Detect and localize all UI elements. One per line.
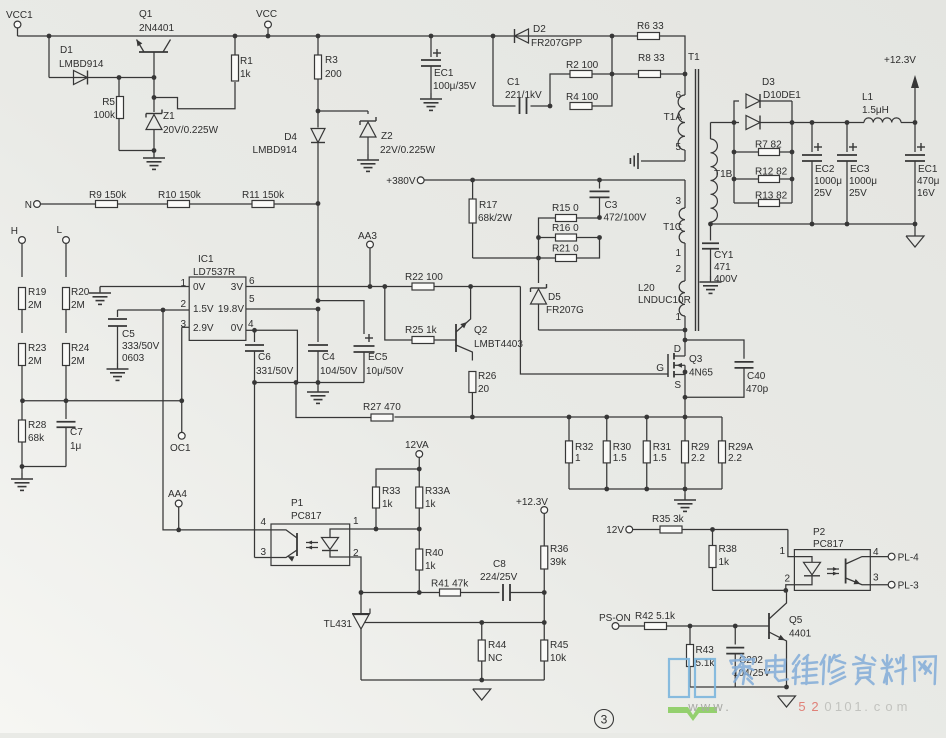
svg-text:Q1: Q1 (139, 9, 153, 20)
svg-text:R1: R1 (240, 56, 253, 67)
svg-text:100μ/35V: 100μ/35V (433, 81, 476, 92)
svg-text:1k: 1k (382, 499, 394, 510)
svg-text:AA3: AA3 (358, 231, 377, 242)
svg-text:5: 5 (798, 699, 805, 714)
svg-text:3: 3 (260, 547, 266, 558)
svg-text:104/50V: 104/50V (320, 366, 358, 377)
svg-text:EC2: EC2 (815, 164, 835, 175)
svg-text:1.5: 1.5 (653, 453, 667, 464)
svg-text:PC817: PC817 (813, 539, 844, 550)
svg-text:c: c (874, 699, 881, 714)
svg-text:R30: R30 (613, 442, 632, 453)
svg-text:R3: R3 (325, 55, 338, 66)
svg-text:2: 2 (784, 574, 790, 585)
svg-text:TL431: TL431 (324, 619, 353, 630)
svg-text:R26: R26 (478, 371, 497, 382)
svg-text:1: 1 (675, 312, 681, 323)
svg-text:D4: D4 (284, 132, 297, 143)
svg-text:4: 4 (248, 319, 254, 330)
svg-text:10k: 10k (550, 653, 567, 664)
svg-text:PL-3: PL-3 (898, 581, 920, 592)
svg-text:2.2: 2.2 (728, 453, 742, 464)
svg-text:EC5: EC5 (368, 352, 388, 363)
svg-text:R12 82: R12 82 (755, 167, 788, 178)
svg-text:+380V: +380V (386, 176, 416, 187)
svg-text:T1A: T1A (664, 112, 683, 123)
svg-text:R11 150k: R11 150k (242, 190, 285, 201)
svg-text:5: 5 (249, 294, 255, 305)
svg-text:.: . (864, 699, 868, 714)
svg-text:R5: R5 (102, 97, 115, 108)
svg-text:1: 1 (835, 699, 842, 714)
svg-text:R20: R20 (71, 287, 90, 298)
svg-text:1k: 1k (240, 69, 252, 80)
svg-text:0V: 0V (231, 323, 244, 334)
svg-text:Z1: Z1 (163, 111, 175, 122)
svg-text:w: w (687, 699, 698, 714)
svg-text:R43: R43 (696, 645, 715, 656)
svg-text:D: D (674, 344, 681, 355)
svg-text:o: o (885, 699, 892, 714)
svg-text:LMBT4403: LMBT4403 (474, 339, 523, 350)
svg-text:C40: C40 (747, 371, 766, 382)
svg-text:AA4: AA4 (168, 489, 187, 500)
svg-text:+12.3V: +12.3V (516, 497, 548, 508)
svg-text:68k/2W: 68k/2W (478, 213, 512, 224)
svg-text:6: 6 (249, 276, 255, 287)
svg-text:20: 20 (478, 384, 490, 395)
svg-text:2M: 2M (28, 356, 42, 367)
svg-text:0603: 0603 (122, 353, 145, 364)
svg-text:R38: R38 (719, 544, 738, 555)
svg-text:P1: P1 (291, 498, 304, 509)
svg-text:R17: R17 (479, 200, 498, 211)
svg-text:T1: T1 (688, 52, 700, 63)
svg-text:VCC1: VCC1 (6, 10, 33, 21)
svg-text:224/25V: 224/25V (480, 572, 518, 583)
svg-text:100k: 100k (93, 110, 116, 121)
svg-text:19.8V: 19.8V (218, 304, 244, 315)
svg-text:1000μ: 1000μ (814, 176, 842, 187)
svg-text:D10DE1: D10DE1 (763, 90, 801, 101)
svg-text:1.5μH: 1.5μH (862, 105, 889, 116)
svg-text:FR207GPP: FR207GPP (531, 38, 582, 49)
svg-text:Q3: Q3 (689, 354, 703, 365)
svg-text:H: H (11, 226, 18, 237)
svg-text:10μ/50V: 10μ/50V (366, 366, 404, 377)
svg-text:333/50V: 333/50V (122, 341, 160, 352)
svg-text:2M: 2M (71, 356, 85, 367)
svg-text:R21 0: R21 0 (552, 244, 579, 255)
svg-text:C6: C6 (258, 352, 271, 363)
svg-text:P2: P2 (813, 527, 826, 538)
svg-text:Q5: Q5 (789, 615, 803, 626)
svg-text:R22 100: R22 100 (405, 272, 443, 283)
svg-text:R40: R40 (425, 548, 444, 559)
svg-text:R33A: R33A (425, 486, 450, 497)
svg-text:T1C: T1C (663, 222, 682, 233)
svg-text:EC1: EC1 (434, 68, 454, 79)
svg-text:LD7537R: LD7537R (193, 267, 235, 278)
svg-text:CY1: CY1 (714, 250, 734, 261)
svg-text:4: 4 (260, 517, 266, 528)
svg-text:D1: D1 (60, 45, 73, 56)
svg-text:200: 200 (325, 69, 342, 80)
svg-text:2M: 2M (71, 300, 85, 311)
svg-text:0: 0 (844, 699, 851, 714)
svg-text:6: 6 (675, 90, 681, 101)
svg-text:Q2: Q2 (474, 325, 488, 336)
svg-text:D2: D2 (533, 24, 546, 35)
svg-text:FR207G: FR207G (546, 305, 584, 316)
svg-text:R31: R31 (653, 442, 672, 453)
svg-text:C4: C4 (322, 352, 335, 363)
svg-text:1.5: 1.5 (613, 453, 627, 464)
svg-text:R44: R44 (488, 640, 507, 651)
svg-text:R28: R28 (28, 420, 47, 431)
svg-text:1k: 1k (719, 557, 731, 568)
svg-text:5: 5 (675, 142, 681, 153)
svg-text:68k: 68k (28, 433, 45, 444)
svg-text:3: 3 (601, 713, 608, 727)
svg-text:R19: R19 (28, 287, 47, 298)
svg-text:20V/0.225W: 20V/0.225W (163, 125, 219, 136)
svg-text:1k: 1k (425, 499, 437, 510)
svg-text:R9 150k: R9 150k (89, 190, 127, 201)
svg-text:R24: R24 (71, 343, 90, 354)
svg-text:1: 1 (575, 453, 581, 464)
svg-text:R32: R32 (575, 442, 594, 453)
svg-text:R35 3k: R35 3k (652, 514, 685, 525)
svg-text:.: . (725, 699, 729, 714)
svg-text:470μ: 470μ (917, 176, 940, 187)
svg-text:PC817: PC817 (291, 511, 322, 522)
svg-text:S: S (674, 380, 681, 391)
svg-text:LMBD914: LMBD914 (59, 59, 104, 70)
svg-text:NC: NC (488, 653, 502, 664)
svg-text:0: 0 (824, 699, 831, 714)
svg-text:12V: 12V (606, 525, 624, 536)
svg-text:m: m (897, 699, 908, 714)
svg-text:1: 1 (675, 248, 681, 259)
svg-text:EC3: EC3 (850, 164, 870, 175)
svg-text:3: 3 (675, 196, 681, 207)
svg-text:2: 2 (811, 699, 818, 714)
svg-text:25V: 25V (814, 188, 832, 199)
svg-text:Z2: Z2 (381, 131, 393, 142)
svg-text:16V: 16V (917, 188, 935, 199)
svg-text:R10 150k: R10 150k (158, 190, 202, 201)
svg-text:C8: C8 (493, 559, 506, 570)
svg-text:1000μ: 1000μ (849, 176, 877, 187)
svg-text:R4 100: R4 100 (566, 92, 599, 103)
svg-text:D3: D3 (762, 77, 775, 88)
svg-text:22V/0.225W: 22V/0.225W (380, 145, 436, 156)
svg-text:1.5V: 1.5V (193, 304, 214, 315)
svg-text:PS-ON: PS-ON (599, 613, 631, 624)
svg-text:R8 33: R8 33 (638, 53, 665, 64)
svg-text:3V: 3V (231, 282, 244, 293)
svg-text:3: 3 (873, 573, 879, 584)
svg-text:L: L (56, 225, 62, 236)
svg-text:R13 82: R13 82 (755, 191, 788, 202)
svg-text:2: 2 (180, 299, 186, 310)
svg-text:4N65: 4N65 (689, 368, 713, 379)
svg-text:R2 100: R2 100 (566, 60, 599, 71)
svg-text:R6 33: R6 33 (637, 21, 664, 32)
svg-text:1: 1 (779, 546, 785, 557)
svg-text:R25 1k: R25 1k (405, 325, 438, 336)
svg-text:T1B: T1B (714, 169, 733, 180)
svg-text:4401: 4401 (789, 629, 812, 640)
svg-text:1μ: 1μ (70, 441, 82, 452)
svg-text:w: w (712, 699, 723, 714)
svg-text:N: N (25, 200, 32, 211)
svg-text:R29A: R29A (728, 442, 753, 453)
svg-text:400V: 400V (714, 274, 738, 285)
svg-text:PL-4: PL-4 (898, 553, 920, 564)
svg-text:R23: R23 (28, 343, 47, 354)
svg-text:1: 1 (854, 699, 861, 714)
svg-text:R42 5.1k: R42 5.1k (635, 611, 676, 622)
svg-text:+12.3V: +12.3V (884, 55, 916, 66)
svg-text:470p: 470p (746, 384, 769, 395)
svg-text:1k: 1k (425, 561, 437, 572)
svg-text:EC1: EC1 (918, 164, 938, 175)
svg-text:w: w (700, 699, 711, 714)
svg-text:L1: L1 (862, 92, 874, 103)
svg-text:39k: 39k (550, 557, 567, 568)
svg-text:R29: R29 (691, 442, 710, 453)
svg-text:R36: R36 (550, 544, 569, 555)
svg-text:R27 470: R27 470 (363, 402, 401, 413)
svg-text:1: 1 (353, 516, 359, 527)
svg-text:C7: C7 (70, 427, 83, 438)
svg-text:R41 47k: R41 47k (431, 579, 469, 590)
svg-text:VCC: VCC (256, 9, 277, 20)
svg-text:OC1: OC1 (170, 443, 191, 454)
svg-text:2: 2 (675, 264, 681, 275)
svg-text:12VA: 12VA (405, 440, 429, 451)
svg-text:R15 0: R15 0 (552, 203, 579, 214)
svg-text:C3: C3 (605, 200, 618, 211)
svg-text:471: 471 (714, 262, 731, 273)
svg-text:C5: C5 (122, 329, 135, 340)
svg-text:L20: L20 (638, 283, 655, 294)
svg-text:LNDUC10R: LNDUC10R (638, 295, 691, 306)
svg-text:221/1kV: 221/1kV (505, 90, 542, 101)
svg-text:1: 1 (180, 278, 186, 289)
svg-text:IC1: IC1 (198, 254, 214, 265)
svg-text:R45: R45 (550, 640, 569, 651)
svg-text:472/100V: 472/100V (604, 213, 647, 224)
svg-text:R7 82: R7 82 (755, 140, 782, 151)
svg-text:C1: C1 (507, 77, 520, 88)
svg-text:R33: R33 (382, 486, 401, 497)
svg-text:25V: 25V (849, 188, 867, 199)
svg-text:2M: 2M (28, 300, 42, 311)
svg-text:R16 0: R16 0 (552, 223, 579, 234)
svg-text:2N4401: 2N4401 (139, 23, 174, 34)
svg-text:2.2: 2.2 (691, 453, 705, 464)
svg-text:331/50V: 331/50V (256, 366, 294, 377)
svg-text:0V: 0V (193, 282, 206, 293)
svg-text:G: G (656, 363, 664, 374)
svg-text:2.9V: 2.9V (193, 323, 214, 334)
svg-text:LMBD914: LMBD914 (253, 145, 298, 156)
svg-text:D5: D5 (548, 292, 561, 303)
